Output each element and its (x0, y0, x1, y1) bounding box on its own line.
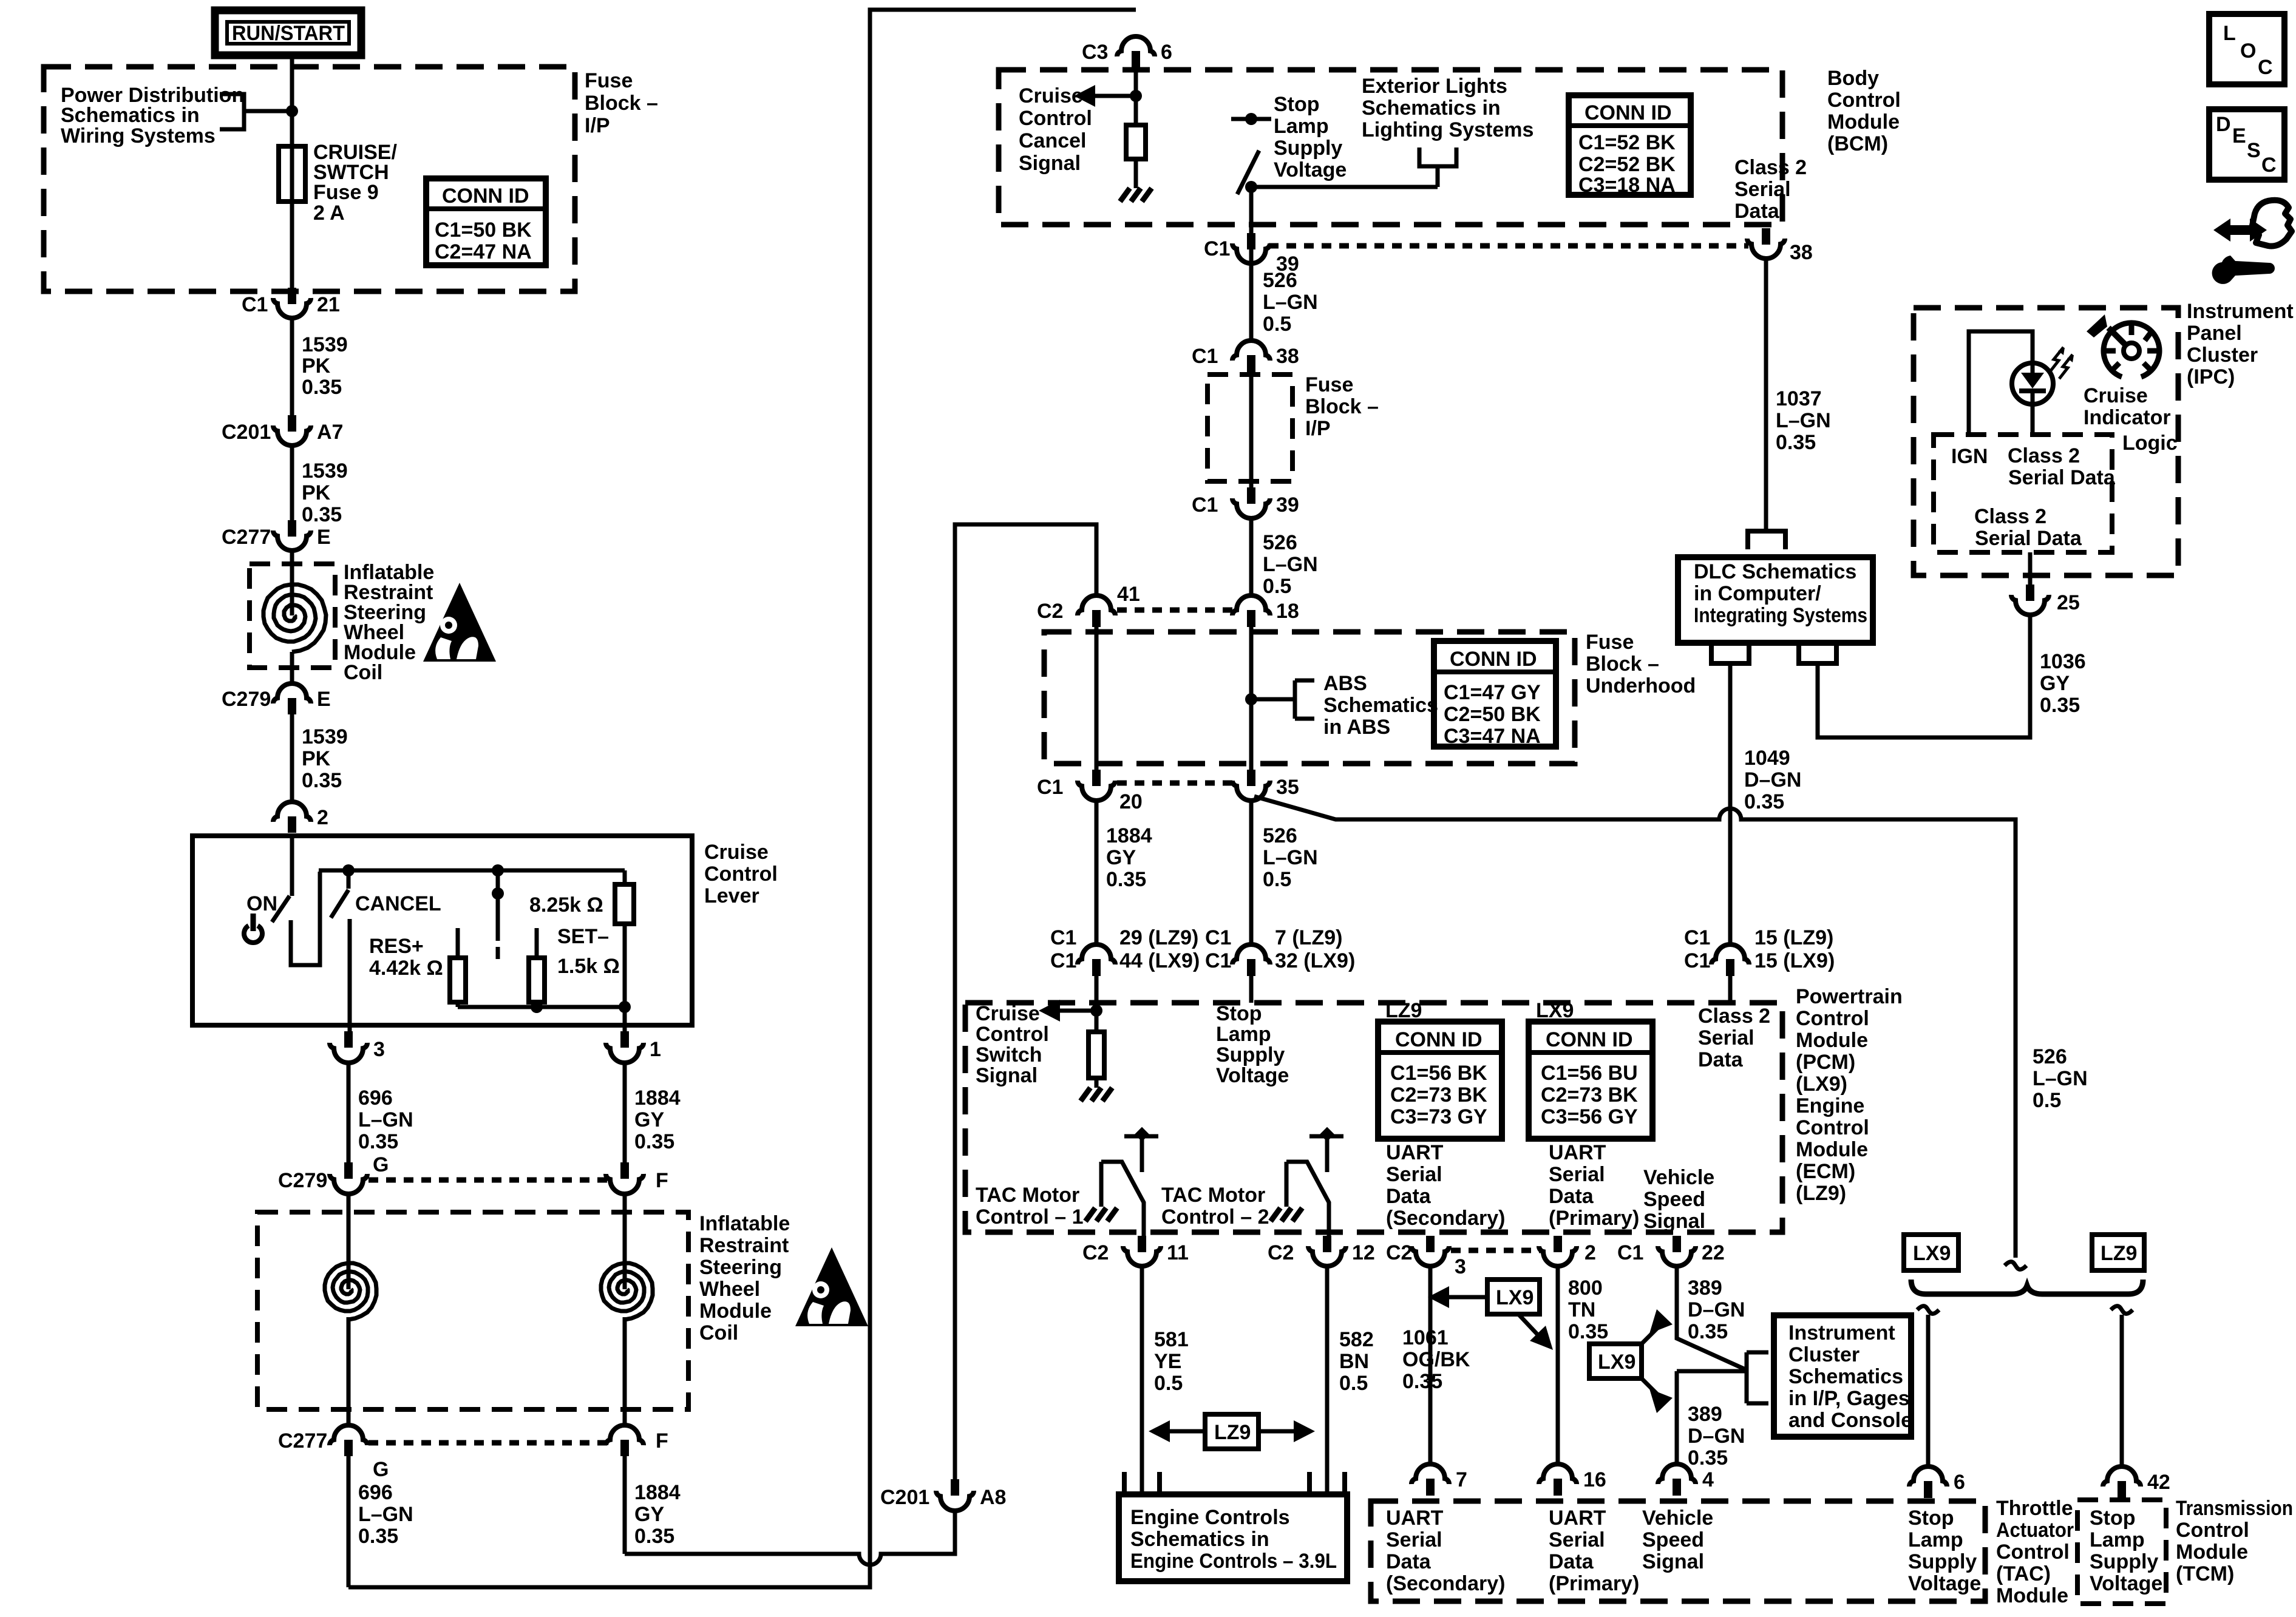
label 1049 D-GN 0.35 (1744, 747, 1801, 813)
svg-text:(TAC): (TAC) (1996, 1562, 2051, 1585)
svg-text:Control: Control (1019, 107, 1092, 130)
svg-text:D–GN: D–GN (1688, 1298, 1745, 1321)
svg-text:Module: Module (1996, 1584, 2068, 1607)
svg-text:Control: Control (1796, 1007, 1869, 1030)
Fuse Block Underhood dashed box (1044, 632, 1575, 764)
stub C1-15 into PCM (1728, 976, 1733, 1003)
svg-text:Block –: Block – (1305, 395, 1379, 418)
dotted connector line BCM C1 (1269, 243, 1748, 249)
switch stop lamp (1231, 113, 1271, 265)
label UART Serial Data Secondary TAC (1386, 1507, 1506, 1595)
svg-text:C201: C201 (880, 1486, 929, 1509)
svg-text:Class 2: Class 2 (1698, 1005, 1770, 1028)
wire C3-6 into BCM (1134, 68, 1138, 125)
label Stop Lamp Supply Voltage TAC (1908, 1507, 1981, 1595)
SIR coil module dashed box upper (250, 564, 335, 668)
connector lever pin 1 (606, 1031, 661, 1063)
svg-text:42: 42 (2147, 1471, 2170, 1494)
svg-text:C1=56 BK: C1=56 BK (1390, 1062, 1487, 1085)
label Transmission Control Module TCM (2176, 1497, 2293, 1585)
svg-text:C2: C2 (1386, 1241, 1412, 1264)
svg-text:Lamp: Lamp (1216, 1023, 1271, 1046)
svg-text:32 (LX9): 32 (LX9) (1275, 949, 1355, 972)
svg-text:Module: Module (699, 1300, 772, 1323)
connector TAC pin 6 (1909, 1466, 1965, 1498)
svg-text:C1: C1 (1192, 493, 1218, 517)
svg-text:44 (LX9): 44 (LX9) (1119, 949, 1200, 972)
svg-text:(Secondary): (Secondary) (1386, 1207, 1506, 1230)
Fuse Block - I/P dashed box (44, 67, 575, 291)
svg-text:15 (LZ9): 15 (LZ9) (1754, 926, 1833, 949)
svg-text:Exterior Lights: Exterior Lights (1362, 75, 1507, 98)
svg-text:3: 3 (373, 1038, 385, 1061)
svg-text:0.35: 0.35 (1688, 1446, 1728, 1470)
svg-text:CONN ID: CONN ID (1395, 1028, 1483, 1051)
label 1884 GY 0.35 (634, 1086, 681, 1153)
lightning arrows LED (2050, 347, 2074, 379)
label Class 2 Serial Data lower (1974, 505, 2082, 550)
svg-text:GY: GY (2040, 672, 2070, 695)
svg-text:C2=52 BK: C2=52 BK (1578, 153, 1676, 176)
node ABS tap (1245, 693, 1257, 705)
svg-text:39: 39 (1276, 493, 1299, 517)
svg-text:C2: C2 (1082, 1241, 1109, 1264)
wire 18 through underhood box (1249, 627, 1254, 771)
svg-text:I/P: I/P (585, 114, 610, 137)
svg-text:C1: C1 (1617, 1241, 1643, 1264)
svg-text:ABS: ABS (1323, 672, 1367, 695)
svg-text:ON: ON (246, 892, 277, 915)
connector C279 pin E (222, 683, 331, 714)
svg-text:GY: GY (634, 1503, 664, 1526)
svg-text:L: L (2223, 22, 2236, 45)
wire C201-A7 to C277-E circuit 1539 (290, 446, 294, 521)
dotted connector line C277 (369, 1440, 607, 1446)
svg-text:4.42k Ω: 4.42k Ω (369, 957, 443, 980)
svg-text:7 (LZ9): 7 (LZ9) (1275, 926, 1342, 949)
svg-text:E: E (317, 688, 331, 711)
wire C277-G down circuit 696 (347, 1456, 351, 1587)
svg-text:C1: C1 (1050, 949, 1076, 972)
bracket to instrument cluster reference (1747, 1352, 1768, 1403)
svg-text:Coil: Coil (699, 1321, 738, 1344)
svg-text:Speed: Speed (1642, 1528, 1704, 1551)
svg-text:Serial: Serial (1698, 1026, 1754, 1049)
svg-text:C3=56 GY: C3=56 GY (1541, 1105, 1638, 1128)
wire IPC class2 to conn 25 (2028, 552, 2033, 585)
svg-text:C2=50 BK: C2=50 BK (1444, 703, 1541, 726)
svg-text:0.5: 0.5 (1263, 868, 1291, 891)
svg-text:C279: C279 (222, 688, 271, 711)
svg-text:22: 22 (1702, 1241, 1725, 1264)
svg-text:Module: Module (1796, 1138, 1868, 1161)
svg-text:C1=47 GY: C1=47 GY (1444, 681, 1541, 704)
svg-text:(Primary): (Primary) (1549, 1572, 1639, 1595)
svg-text:YE: YE (1154, 1350, 1181, 1373)
label Inflatable Restraint Steering Wheel Module Coil lower (699, 1212, 790, 1344)
svg-text:581: 581 (1154, 1328, 1189, 1351)
svg-text:Class 2: Class 2 (1974, 505, 2046, 528)
connector C201 pin A7 (222, 415, 343, 446)
svg-text:Coil: Coil (344, 661, 382, 684)
svg-text:1.5k Ω: 1.5k Ω (557, 955, 620, 978)
steering wheel coil spiral upper (263, 551, 326, 682)
svg-text:Lever: Lever (704, 884, 759, 907)
svg-text:1061: 1061 (1402, 1326, 1449, 1349)
svg-text:RUN/START: RUN/START (232, 22, 345, 45)
svg-text:Supply: Supply (1216, 1043, 1285, 1066)
svg-text:1884: 1884 (634, 1481, 681, 1504)
wire C1-20 to C1-29 circuit 1884 (1095, 801, 1099, 946)
node bus junction cancel (342, 864, 355, 876)
connector C1 pins 29/44 (1050, 926, 1200, 976)
svg-text:C3=47 NA: C3=47 NA (1444, 725, 1541, 748)
svg-text:6: 6 (1161, 41, 1172, 64)
wire stop lamp feed to exterior lights (1251, 185, 1438, 189)
connector C2 pin 11 (1082, 1236, 1189, 1266)
bracket to Power Distribution reference (220, 94, 290, 129)
svg-text:F: F (656, 1429, 668, 1453)
svg-text:and Console: and Console (1788, 1409, 1912, 1432)
dotted connector line 20-35 (1117, 781, 1232, 786)
svg-text:0.5: 0.5 (2033, 1089, 2061, 1112)
connector C2 pin 3 (1386, 1236, 1466, 1278)
svg-text:Control: Control (976, 1023, 1049, 1046)
svg-text:Engine Controls: Engine Controls (1130, 1506, 1290, 1529)
node switch signal junction (1090, 1005, 1102, 1017)
CONN ID table LZ9 (1378, 1022, 1502, 1139)
svg-text:0.35: 0.35 (634, 1130, 674, 1153)
svg-text:Cruise: Cruise (1019, 84, 1083, 107)
svg-text:Transmission: Transmission (2176, 1497, 2293, 1520)
svg-text:Schematics in: Schematics in (1130, 1528, 1269, 1551)
connector C1 pin 22 (1617, 1236, 1725, 1266)
LZ9 tag with arrows (1149, 1414, 1315, 1449)
label Fuse Block - I/P (585, 69, 658, 137)
label 581 YE 0.5 (1154, 1328, 1189, 1395)
svg-text:C201: C201 (222, 421, 271, 444)
svg-text:18: 18 (1276, 600, 1299, 623)
Transmission Control Module dashed box (2077, 1500, 2166, 1604)
label 1539 PK 0.35 (302, 333, 348, 399)
svg-text:CONN ID: CONN ID (1546, 1028, 1633, 1051)
LED cruise indicator (2012, 363, 2053, 433)
connector C277 pin F lower (606, 1425, 668, 1456)
resistor SET- 1.5k (529, 928, 545, 1007)
wire C2-11 to engine controls circuit 581 (1140, 1266, 1144, 1494)
connector C279 pin G (278, 1153, 389, 1194)
label TAC Motor Control - 2 (1161, 1184, 1269, 1229)
wire BCM39 to C1-38 circuit 526 (1249, 263, 1254, 342)
svg-text:Data: Data (1549, 1550, 1594, 1573)
svg-text:Schematics: Schematics (1323, 694, 1438, 717)
label Cruise Control Lever (704, 841, 778, 907)
wire DLC to conn 25 circuit 1036 (1818, 615, 2030, 737)
label Cruise Control Switch Signal (976, 1002, 1049, 1087)
svg-text:C: C (2261, 154, 2277, 177)
switch ON blade (272, 896, 290, 922)
svg-text:C1: C1 (1684, 949, 1710, 972)
label Stop Lamp Supply Voltage (1274, 93, 1347, 181)
svg-text:7: 7 (1456, 1468, 1467, 1491)
terminal tab DLC top (1748, 531, 1785, 549)
node cancel signal junction (1130, 90, 1142, 102)
terminal tab engine controls left (1124, 1472, 1160, 1494)
svg-text:Fuse: Fuse (1305, 373, 1353, 396)
svg-text:D–GN: D–GN (1688, 1425, 1745, 1448)
label Instrument Panel Cluster (IPC) (2187, 300, 2294, 388)
svg-text:1884: 1884 (634, 1086, 681, 1110)
svg-text:Control – 1: Control – 1 (976, 1205, 1084, 1229)
svg-text:A8: A8 (980, 1486, 1006, 1509)
svg-text:C1=52 BK: C1=52 BK (1578, 131, 1676, 154)
svg-text:Powertrain: Powertrain (1796, 985, 1903, 1008)
RUN/START power feed box (215, 10, 361, 55)
label 526 L-GN 0.5 (1263, 824, 1318, 891)
svg-text:2: 2 (1584, 1241, 1596, 1264)
connector C279 pin F (606, 1162, 668, 1194)
wire 35 branch to right riser circuit 526 (1254, 796, 2016, 1258)
Cruise Control Lever box (192, 836, 692, 1025)
svg-text:TN: TN (1568, 1298, 1595, 1321)
svg-text:UART: UART (1549, 1141, 1606, 1164)
svg-text:CONN ID: CONN ID (442, 185, 529, 208)
svg-text:Control: Control (1796, 1116, 1869, 1139)
svg-text:L–GN: L–GN (358, 1503, 413, 1526)
svg-text:GY: GY (1106, 846, 1136, 869)
connector C1 pin 20 (1037, 770, 1143, 813)
resistor cancel signal pull-up (1126, 125, 1146, 188)
svg-text:Panel: Panel (2187, 322, 2242, 345)
svg-text:C1: C1 (1684, 926, 1710, 949)
svg-text:0.35: 0.35 (302, 769, 342, 792)
switch TAC motor control 2 (1286, 1127, 1343, 1236)
CONN ID table underhood (1434, 641, 1556, 748)
svg-text:526: 526 (1263, 824, 1297, 847)
ground PCM switch signal (1081, 1088, 1112, 1101)
wire C2-12 to engine controls circuit 582 (1325, 1266, 1330, 1494)
svg-text:Throttle: Throttle (1996, 1497, 2073, 1520)
svg-text:in Computer/: in Computer/ (1694, 582, 1821, 605)
svg-text:4: 4 (1702, 1468, 1714, 1491)
svg-text:Signal: Signal (976, 1064, 1038, 1087)
svg-text:1884: 1884 (1106, 824, 1152, 847)
svg-text:Data: Data (1386, 1185, 1432, 1208)
svg-text:C279: C279 (278, 1169, 327, 1192)
svg-text:Signal: Signal (1643, 1210, 1705, 1233)
svg-text:C1: C1 (242, 293, 268, 316)
label 1036 GY 0.35 (2040, 650, 2086, 717)
label Class 2 Serial Data upper (2008, 444, 2116, 489)
svg-text:C1: C1 (1050, 926, 1076, 949)
svg-text:Lamp: Lamp (1908, 1528, 1963, 1551)
gauge cruise indicator (2104, 323, 2159, 377)
arrow cruise control cancel signal (1074, 85, 1136, 107)
svg-text:GY: GY (634, 1108, 664, 1131)
wire 41 through underhood box (1095, 627, 1099, 771)
svg-text:C1: C1 (1204, 237, 1230, 260)
Fuse Block I/P dashed box middle (1207, 375, 1292, 481)
svg-text:Lamp: Lamp (1274, 115, 1329, 138)
svg-text:21: 21 (317, 293, 340, 316)
svg-text:1049: 1049 (1744, 747, 1790, 770)
svg-text:Lamp: Lamp (2090, 1528, 2145, 1551)
svg-text:Fuse: Fuse (585, 69, 633, 92)
svg-text:Control: Control (1827, 89, 1901, 112)
steering wheel coil spiral left (325, 1194, 376, 1425)
SIR caution triangle upper (423, 583, 496, 662)
svg-text:Schematics: Schematics (1788, 1365, 1903, 1388)
svg-text:Lighting Systems: Lighting Systems (1362, 118, 1533, 141)
connector BCM C1 pin 38 (1747, 228, 1813, 264)
svg-text:526: 526 (1263, 269, 1297, 292)
svg-text:Serial: Serial (1386, 1163, 1442, 1186)
label Throttle Actuator Control TAC Module (1996, 1497, 2074, 1607)
svg-text:C2: C2 (1268, 1241, 1294, 1264)
LOC box (2209, 14, 2284, 84)
svg-text:Cancel: Cancel (1019, 129, 1087, 152)
arrow cruise control switch signal (1039, 1000, 1096, 1022)
svg-text:C1: C1 (1205, 949, 1231, 972)
svg-text:0.35: 0.35 (1776, 431, 1816, 454)
connector C277 pin E (222, 520, 331, 551)
svg-text:0.5: 0.5 (1263, 575, 1291, 598)
svg-text:C3: C3 (1082, 41, 1108, 64)
svg-text:C2=73 BK: C2=73 BK (1541, 1083, 1638, 1107)
svg-text:D: D (2216, 113, 2231, 136)
label UART Serial Data Primary TAC (1549, 1507, 1639, 1595)
label Exterior Lights Schematics in Lighting Systems (1362, 75, 1533, 141)
svg-text:UART: UART (1386, 1141, 1444, 1164)
svg-text:Steering: Steering (699, 1256, 782, 1279)
connector IPC pin 25 (2011, 585, 2080, 615)
wire ON switch lower channel (291, 872, 320, 965)
connector C2 pin 12 (1268, 1236, 1375, 1266)
svg-text:Actuator: Actuator (1996, 1519, 2074, 1542)
wire IPC indicator feed (1969, 331, 2033, 433)
svg-text:1036: 1036 (2040, 650, 2086, 673)
svg-text:Serial: Serial (1549, 1528, 1605, 1551)
wire 696 bottom run to C3 riser (348, 10, 1136, 1587)
svg-text:389: 389 (1688, 1276, 1722, 1300)
label Vehicle Speed Signal PCM (1643, 1166, 1714, 1233)
svg-text:C277: C277 (222, 526, 271, 549)
label 800 TN 0.35 (1568, 1276, 1608, 1343)
svg-text:OG/BK: OG/BK (1402, 1348, 1470, 1371)
label Class 2 Serial Data BCM (1734, 156, 1807, 223)
svg-text:Switch: Switch (976, 1043, 1042, 1066)
svg-text:Engine: Engine (1796, 1094, 1864, 1117)
node stop lamp junction (1245, 181, 1257, 193)
svg-text:CONN ID: CONN ID (1584, 101, 1672, 124)
DLC Schematics box (1678, 557, 1873, 643)
wire DLC to C1-15 circuit 1049 (1728, 663, 1733, 946)
wire 35 to C1-7 circuit 526 (1249, 801, 1254, 946)
flag arrow gauge (2087, 314, 2107, 337)
fuse F9 CRUISE/SWTCH (279, 146, 305, 202)
label 526 L-GN 0.5 (1263, 269, 1318, 336)
svg-text:Control: Control (704, 863, 778, 886)
svg-text:6: 6 (1954, 1471, 1965, 1494)
connector C1 pins 7/32 (1205, 926, 1355, 976)
connector pin 35 (1232, 770, 1299, 801)
svg-text:582: 582 (1339, 1328, 1374, 1351)
svg-text:O: O (2240, 39, 2256, 63)
LX9 branch tag box (1904, 1235, 1958, 1270)
label Fuse Block - Underhood (1586, 631, 1696, 697)
svg-text:(BCM): (BCM) (1827, 132, 1888, 155)
svg-text:696: 696 (358, 1481, 393, 1504)
svg-text:0.5: 0.5 (1154, 1372, 1183, 1395)
connector C3 pin 6 (1082, 36, 1172, 72)
Powertrain Control Module dashed box (965, 1003, 1782, 1232)
label Stop Lamp Supply Voltage PCM (1216, 1002, 1289, 1087)
svg-text:(PCM): (PCM) (1796, 1051, 1855, 1074)
label Cruise Indicator Logic (2084, 384, 2178, 455)
wire pin 1 to C279-F circuit 1884 (623, 1063, 627, 1164)
svg-text:Stop: Stop (1908, 1507, 1954, 1530)
svg-text:I/P: I/P (1305, 417, 1331, 440)
svg-text:(LX9): (LX9) (1796, 1073, 1847, 1096)
label CRUISE/SWTCH Fuse 9 2 A (313, 141, 397, 225)
svg-text:Data: Data (1549, 1185, 1594, 1208)
connector pin 4 (1658, 1464, 1714, 1496)
label 1061 OG/BK 0.35 (1402, 1326, 1470, 1393)
resistor RES+ 4.42k (450, 928, 466, 1007)
svg-text:0.35: 0.35 (358, 1130, 398, 1153)
switch TAC motor control 1 (1101, 1127, 1158, 1236)
wire TAC stop lamp branch (1926, 1315, 1931, 1466)
svg-text:C2: C2 (1037, 600, 1063, 623)
svg-text:C1: C1 (1192, 345, 1218, 368)
svg-text:0.35: 0.35 (302, 376, 342, 399)
label 696 L-GN 0.35 (358, 1086, 413, 1153)
wire lever pin 2 into box (290, 836, 294, 896)
svg-text:2: 2 (317, 806, 328, 829)
wire pin 3 to C279-G circuit 696 (347, 1063, 351, 1164)
svg-text:3: 3 (1455, 1255, 1466, 1278)
svg-text:F: F (656, 1169, 668, 1192)
svg-text:Voltage: Voltage (1216, 1064, 1289, 1087)
connector C1 pin 21 (242, 288, 340, 318)
CONN ID table Fuse Block I/P (426, 178, 546, 265)
svg-text:1037: 1037 (1776, 387, 1822, 410)
svg-text:C1: C1 (1205, 926, 1231, 949)
brace splitting 526 to modules (1911, 1280, 2143, 1294)
label 389 D-GN 0.35 lower (1688, 1403, 1745, 1470)
label 1539 PK 0.35 (302, 725, 348, 792)
label 1884 GY 0.35 (634, 1481, 681, 1548)
svg-text:Supply: Supply (1274, 137, 1342, 160)
label 1037 L-GN 0.35 (1776, 387, 1831, 454)
svg-text:Module: Module (2176, 1541, 2248, 1564)
svg-text:Logic: Logic (2122, 432, 2178, 455)
label 1884 GY 0.35 (1106, 824, 1152, 891)
svg-text:LZ9: LZ9 (2101, 1242, 2137, 1265)
svg-text:LX9: LX9 (1913, 1242, 1951, 1265)
terminal tab DLC bottom left (1711, 645, 1749, 663)
connector pin 18 (1232, 595, 1299, 627)
svg-text:1: 1 (650, 1038, 661, 1061)
wire 1884 riser to C2-41 (955, 524, 1096, 1479)
svg-text:in ABS: in ABS (1323, 716, 1390, 739)
svg-text:Data: Data (1386, 1550, 1432, 1573)
ground BCM cancel signal (1120, 188, 1152, 202)
svg-text:UART: UART (1386, 1507, 1444, 1530)
svg-text:0.35: 0.35 (1688, 1320, 1728, 1343)
svg-text:0.35: 0.35 (2040, 694, 2080, 717)
svg-text:Inflatable: Inflatable (699, 1212, 790, 1235)
